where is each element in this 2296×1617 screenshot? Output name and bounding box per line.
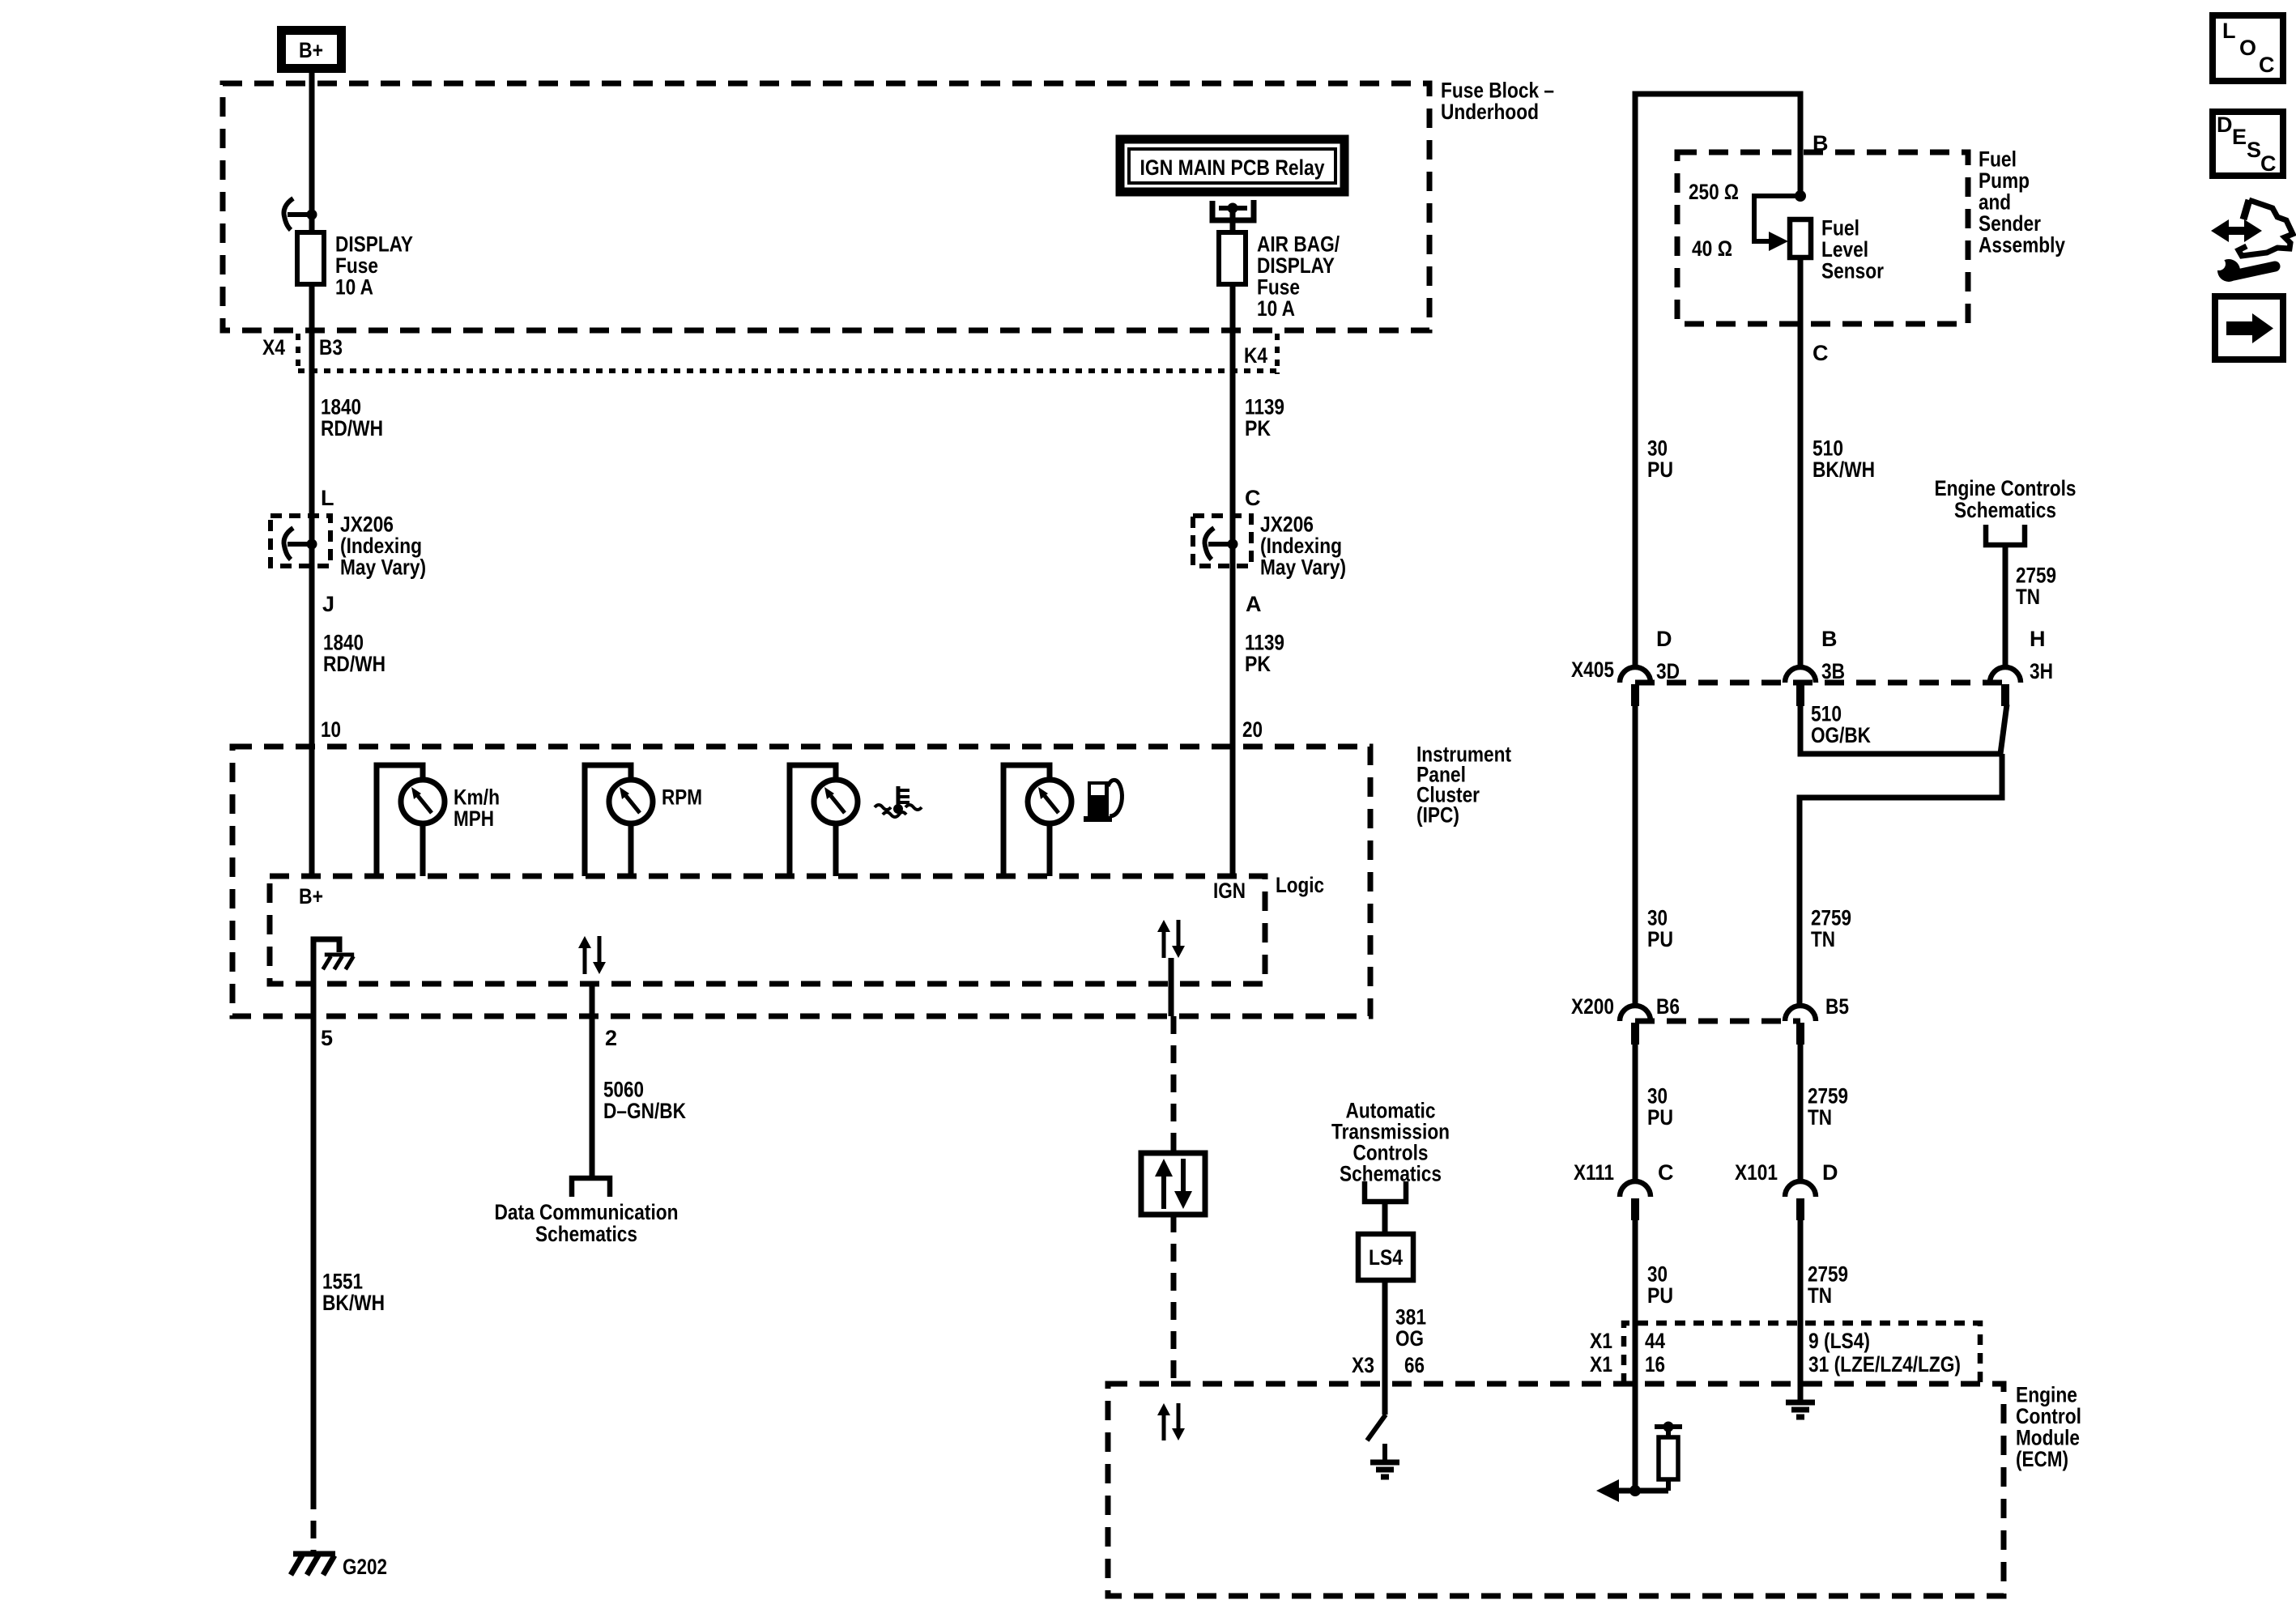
Engine Control Module dashed box	[1108, 1384, 2004, 1596]
switch to ground inside ECM	[1367, 1415, 1386, 1440]
svg-text:X3: X3	[1352, 1353, 1374, 1377]
splice JX206 left	[270, 516, 330, 566]
svg-text:JX206: JX206	[340, 513, 394, 537]
svg-text:PU: PU	[1647, 927, 1673, 951]
Logic dashed box	[270, 876, 1265, 984]
svg-text:B: B	[1821, 627, 1838, 651]
icon coolant temperature	[897, 786, 901, 806]
svg-text:B+: B+	[299, 884, 323, 908]
svg-text:S: S	[2247, 138, 2261, 162]
svg-text:381: 381	[1395, 1305, 1426, 1330]
svg-text:D: D	[1822, 1160, 1838, 1185]
svg-text:C: C	[1658, 1160, 1674, 1185]
svg-text:May Vary): May Vary)	[1260, 555, 1346, 580]
svg-text:D–GN/BK: D–GN/BK	[603, 1099, 686, 1123]
svg-text:PK: PK	[1245, 416, 1271, 440]
connector X200 pin B6	[1620, 1006, 1651, 1021]
svg-text:BK/WH: BK/WH	[1813, 457, 1875, 482]
svg-text:2759: 2759	[1808, 1084, 1848, 1108]
off-page connector from engine controls	[1986, 525, 2025, 545]
svg-text:1840: 1840	[323, 631, 364, 655]
ground G202	[293, 1551, 335, 1557]
svg-text:Schematics: Schematics	[535, 1222, 637, 1246]
svg-text:30: 30	[1647, 436, 1668, 461]
relay pin socket	[1212, 200, 1254, 220]
svg-text:3H: 3H	[2030, 659, 2053, 683]
dashed wire to ground	[311, 1491, 317, 1551]
svg-text:LS4: LS4	[1369, 1245, 1403, 1270]
svg-text:30: 30	[1647, 1084, 1668, 1108]
svg-text:Fuel: Fuel	[1979, 147, 2017, 172]
gauge coolant temperature	[790, 765, 836, 876]
off-page connector to data communication	[572, 1178, 610, 1197]
wire 2759 TN below X200	[1798, 1045, 1804, 1181]
svg-text:Fuse: Fuse	[335, 253, 378, 278]
svg-text:TN: TN	[1808, 1105, 1832, 1130]
svg-text:TN: TN	[2016, 585, 2040, 609]
svg-text:OG: OG	[1395, 1326, 1424, 1351]
svg-text:Engine Controls: Engine Controls	[1935, 476, 2077, 500]
svg-text:1139: 1139	[1245, 631, 1284, 655]
svg-text:C: C	[1245, 486, 1261, 510]
svg-text:Km/h: Km/h	[454, 785, 500, 810]
wire 381 OG	[1382, 1280, 1388, 1415]
svg-text:IGN: IGN	[1213, 879, 1246, 903]
ECM internal pullup resistor	[1655, 1424, 1682, 1429]
svg-text:2759: 2759	[1811, 906, 1851, 930]
svg-text:C: C	[1813, 341, 1829, 365]
off-page connector from transmission	[1365, 1181, 1406, 1202]
svg-text:Schematics: Schematics	[1340, 1162, 1442, 1186]
svg-text:Fuel: Fuel	[1821, 216, 1859, 240]
svg-text:2759: 2759	[2016, 564, 2056, 588]
svg-text:PK: PK	[1245, 652, 1271, 676]
svg-text:AIR BAG/: AIR BAG/	[1257, 232, 1340, 257]
svg-text:PU: PU	[1647, 1283, 1673, 1308]
svg-text:PU: PU	[1647, 1105, 1673, 1130]
svg-text:B5: B5	[1825, 994, 1849, 1019]
earth ground in ECM for 381 OG	[1382, 1444, 1387, 1462]
svg-text:(ECM): (ECM)	[2016, 1447, 2068, 1471]
svg-text:250 Ω: 250 Ω	[1689, 180, 1739, 204]
wire 510 OG/BK jog	[1800, 706, 2000, 754]
svg-text:66: 66	[1404, 1353, 1425, 1377]
svg-text:Sender: Sender	[1979, 211, 2041, 236]
fuse F2 AIR BAG/DISPLAY 10A	[1219, 232, 1246, 284]
Fuse Block - Underhood dashed box	[223, 83, 1429, 330]
earth ground in ECM for 2759 TN	[1798, 1384, 1803, 1402]
svg-text:X111: X111	[1574, 1160, 1614, 1185]
svg-text:IGN MAIN PCB Relay: IGN MAIN PCB Relay	[1140, 155, 1325, 180]
svg-text:44: 44	[1645, 1329, 1665, 1353]
svg-text:31 (LZE/LZ4/LZG): 31 (LZE/LZ4/LZG)	[1808, 1352, 1961, 1377]
svg-text:May Vary): May Vary)	[340, 555, 426, 580]
wire 30 PU mid	[1633, 706, 1638, 1006]
icon hand with arrow and wrench	[2211, 219, 2262, 242]
ECM internal signal node	[1602, 1488, 1668, 1494]
ECM connector dotted box	[1624, 1323, 1980, 1384]
svg-text:A: A	[1246, 592, 1262, 616]
Instrument Panel Cluster dashed box	[232, 747, 1370, 1016]
splice JX206 right	[1193, 516, 1251, 566]
svg-text:X1: X1	[1590, 1352, 1612, 1377]
connector X405 pin D	[1620, 667, 1651, 683]
svg-text:30: 30	[1647, 906, 1668, 930]
svg-text:and: and	[1979, 190, 2011, 215]
svg-text:E: E	[2232, 125, 2247, 149]
svg-text:DISPLAY: DISPLAY	[335, 232, 413, 257]
dashed serial data wire IPC to ECM	[1171, 1016, 1177, 1153]
fuel pump feed loop	[1635, 94, 1800, 667]
connector X101	[1785, 1181, 1816, 1197]
svg-text:L: L	[321, 486, 334, 510]
svg-text:B6: B6	[1656, 994, 1680, 1019]
svg-text:X1: X1	[1590, 1329, 1612, 1353]
svg-text:Level: Level	[1821, 237, 1868, 262]
svg-text:D: D	[1656, 627, 1672, 651]
LS4 tag box	[1358, 1234, 1413, 1280]
svg-text:PU: PU	[1647, 457, 1673, 482]
svg-text:X4: X4	[262, 335, 285, 360]
svg-text:10 A: 10 A	[335, 275, 373, 300]
svg-text:Module: Module	[2016, 1426, 2080, 1450]
svg-text:J: J	[322, 592, 334, 616]
wire relay to AIR BAG fuse	[1230, 208, 1236, 232]
svg-text:30: 30	[1647, 1262, 1668, 1287]
svg-text:X405: X405	[1571, 657, 1614, 682]
svg-text:OG/BK: OG/BK	[1811, 723, 1871, 747]
svg-text:1551: 1551	[322, 1270, 363, 1294]
svg-text:2: 2	[605, 1026, 617, 1050]
wire 2759 TN to ECM pin 9/31	[1798, 1220, 1804, 1402]
svg-text:L: L	[2222, 19, 2236, 43]
svg-text:B+: B+	[299, 38, 323, 62]
fuel level sensor variable resistor	[1795, 190, 1806, 202]
svg-text:RPM: RPM	[662, 785, 702, 810]
svg-text:9 (LS4): 9 (LS4)	[1808, 1329, 1870, 1353]
IPC internal ground stub	[313, 939, 339, 984]
svg-text:Control: Control	[2016, 1404, 2081, 1428]
svg-text:B: B	[1813, 131, 1829, 155]
svg-text:BK/WH: BK/WH	[322, 1291, 385, 1315]
svg-text:MPH: MPH	[454, 806, 494, 831]
svg-text:510: 510	[1811, 702, 1842, 726]
wire 30 PU to ECM pin 44/16	[1633, 1220, 1638, 1491]
svg-text:Underhood: Underhood	[1441, 100, 1539, 124]
svg-text:2759: 2759	[1808, 1262, 1848, 1287]
svg-text:Assembly: Assembly	[1979, 233, 2065, 257]
svg-text:Pump: Pump	[1979, 168, 2030, 193]
svg-text:C: C	[2259, 53, 2275, 77]
connector X405 dashed line	[1635, 680, 2005, 686]
svg-text:1139: 1139	[1245, 395, 1284, 419]
svg-text:RD/WH: RD/WH	[323, 652, 386, 676]
svg-text:TN: TN	[1811, 927, 1835, 951]
svg-text:RD/WH: RD/WH	[321, 416, 383, 440]
svg-text:Fuse Block –: Fuse Block –	[1441, 79, 1554, 103]
svg-text:JX206: JX206	[1260, 513, 1314, 537]
svg-text:Logic: Logic	[1276, 873, 1324, 897]
svg-text:Data Communication: Data Communication	[495, 1200, 679, 1224]
svg-text:5: 5	[321, 1026, 333, 1050]
svg-text:510: 510	[1813, 436, 1843, 461]
serial data symbol right inside logic	[1157, 920, 1170, 932]
connector X111	[1620, 1181, 1651, 1197]
svg-text:X101: X101	[1735, 1160, 1778, 1185]
wire IPC pin 2 data link	[590, 984, 595, 1178]
svg-text:D: D	[2217, 113, 2233, 137]
svg-text:X200: X200	[1571, 994, 1614, 1019]
svg-text:Engine: Engine	[2016, 1383, 2077, 1407]
svg-text:Sensor: Sensor	[1821, 259, 1884, 283]
svg-text:K4: K4	[1244, 343, 1267, 368]
icon DESC box	[2213, 112, 2283, 176]
boxed serial data symbol	[1171, 1141, 1177, 1153]
svg-text:Fuse: Fuse	[1257, 275, 1300, 300]
connector X405 pin H	[1990, 667, 2021, 683]
svg-text:5060: 5060	[603, 1078, 644, 1102]
svg-text:16: 16	[1645, 1352, 1665, 1377]
svg-text:40 Ω: 40 Ω	[1692, 236, 1732, 261]
svg-text:H: H	[2030, 627, 2046, 651]
B+ power feed box	[282, 31, 342, 69]
gauge speedometer Km/h MPH	[377, 765, 423, 876]
fuse F1 DISPLAY 10A	[297, 232, 324, 284]
connector X200 pin B5	[1785, 1006, 1816, 1021]
svg-text:(Indexing: (Indexing	[340, 534, 422, 558]
connector X405 pin B	[1785, 667, 1816, 683]
bus tap at DISPLAY fuse	[283, 198, 293, 230]
svg-text:O: O	[2239, 36, 2256, 60]
svg-text:B3: B3	[319, 335, 343, 360]
serial data symbol inside ECM	[1157, 1403, 1170, 1415]
svg-text:10: 10	[321, 717, 341, 742]
connector X4 dotted boundary	[298, 368, 1277, 373]
wire fuse F1 to IPC pin 10	[309, 284, 315, 876]
wire fuse F2 to IPC pin 20	[1230, 284, 1236, 876]
Fuel Pump and Sender Assembly dashed box	[1677, 152, 1968, 324]
svg-text:C: C	[2260, 151, 2277, 176]
svg-text:Schematics: Schematics	[1954, 498, 2056, 522]
gauge fuel level	[1003, 765, 1050, 876]
relay IGN MAIN PCB Relay	[1120, 139, 1344, 192]
svg-text:DISPLAY: DISPLAY	[1257, 253, 1335, 278]
icon arrow box	[2215, 296, 2283, 360]
wire B+ to DISPLAY fuse	[309, 73, 315, 232]
svg-text:20: 20	[1242, 717, 1263, 742]
connector X200 dashed line	[1635, 1019, 1800, 1024]
icon fuel pump	[1088, 781, 1109, 819]
svg-text:(IPC): (IPC)	[1416, 803, 1459, 828]
svg-text:10 A: 10 A	[1257, 296, 1295, 321]
icon LOC box	[2213, 15, 2283, 81]
gauge tachometer RPM	[585, 765, 631, 876]
wire IPC pin 5 to G202	[311, 984, 317, 1491]
wire 30 PU below X200	[1633, 1045, 1638, 1181]
svg-text:(Indexing: (Indexing	[1260, 534, 1342, 558]
svg-text:G202: G202	[343, 1555, 387, 1579]
serial data symbol inside logic	[578, 936, 591, 948]
svg-text:TN: TN	[1808, 1283, 1832, 1308]
svg-text:1840: 1840	[321, 395, 361, 419]
